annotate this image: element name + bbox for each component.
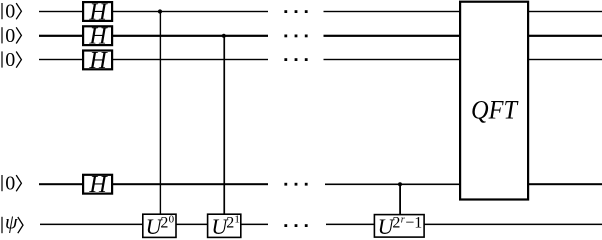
svg-text:H: H xyxy=(88,172,108,198)
svg-text:−1: −1 xyxy=(405,215,422,232)
svg-text:H: H xyxy=(88,48,108,74)
svg-text:1: 1 xyxy=(234,214,240,226)
svg-text:QFT: QFT xyxy=(471,95,518,124)
svg-text:2: 2 xyxy=(392,215,400,232)
svg-text:r: r xyxy=(401,215,405,226)
svg-text:2: 2 xyxy=(226,215,234,232)
svg-text:H: H xyxy=(88,24,108,50)
svg-text:ψ: ψ xyxy=(5,212,18,234)
svg-text:2: 2 xyxy=(160,215,168,232)
svg-text:0: 0 xyxy=(169,214,175,226)
svg-text:0: 0 xyxy=(5,1,15,23)
svg-text:H: H xyxy=(88,0,108,25)
